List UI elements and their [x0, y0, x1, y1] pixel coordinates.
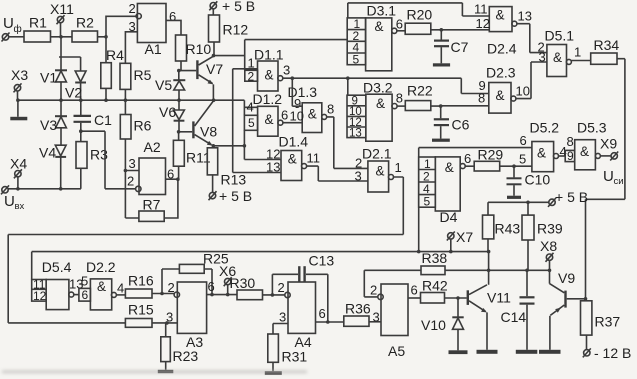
- svg-text:2: 2: [129, 1, 136, 16]
- svg-text:6: 6: [520, 133, 527, 148]
- pin cell column of D4: [419, 157, 436, 209]
- resistor R6: [120, 115, 151, 140]
- wire R25 to A3 out: [204, 269, 212, 295]
- svg-text:2: 2: [278, 280, 285, 295]
- svg-text:2: 2: [248, 69, 255, 83]
- svg-text:R38: R38: [422, 250, 448, 266]
- svg-text:R1: R1: [29, 15, 47, 31]
- terminal +5V top: [209, 0, 255, 14]
- svg-text:X4: X4: [10, 156, 27, 172]
- gate D1.2: [247, 91, 289, 136]
- wire R25 branch riser: [162, 269, 179, 294]
- svg-text:R20: R20: [407, 7, 433, 23]
- capacitor C6: [434, 106, 470, 139]
- terminal X11: [50, 1, 74, 24]
- svg-text:V2: V2: [65, 85, 82, 101]
- svg-text:2: 2: [370, 283, 377, 298]
- ground at V9: [539, 350, 561, 354]
- resistor R23: [161, 323, 199, 364]
- svg-text:8: 8: [327, 102, 334, 117]
- svg-text:2: 2: [127, 174, 134, 189]
- wire D3.1 pin1 tie to D2.4 pin11: [348, 3, 490, 18]
- svg-text:R2: R2: [76, 15, 94, 31]
- pin cell 2 of D1.1: [245, 69, 258, 83]
- resistor R39: [522, 215, 563, 270]
- svg-text:U: U: [603, 168, 614, 185]
- svg-text:&: &: [375, 19, 384, 34]
- svg-text:D1.2: D1.2: [253, 91, 283, 107]
- wire A5 out to R42: [408, 297, 421, 299]
- gate D3.2: [363, 80, 403, 142]
- svg-text:D1.1: D1.1: [254, 47, 284, 63]
- wire Uf to R1: [9, 36, 24, 38]
- svg-text:&: &: [265, 68, 274, 83]
- svg-text:8: 8: [567, 134, 574, 149]
- wire A1 out to R10: [166, 20, 181, 35]
- svg-text:6: 6: [208, 279, 215, 294]
- resistor R31: [268, 334, 308, 365]
- gate D3.1: [366, 3, 403, 71]
- resistor R16: [116, 273, 153, 299]
- wire C13 left branch: [272, 274, 298, 295]
- svg-text:R12: R12: [223, 22, 249, 38]
- svg-text:C10: C10: [525, 172, 551, 188]
- svg-text:R13: R13: [221, 172, 247, 188]
- svg-text:V1: V1: [40, 70, 57, 86]
- svg-text:C7: C7: [451, 39, 469, 55]
- wire V7 collector node to D3.1 riser: [214, 40, 245, 71]
- svg-text:R37: R37: [595, 314, 621, 330]
- wire C1/R3 tap to A2 pin2: [81, 131, 136, 189]
- diode V2: [65, 57, 86, 101]
- resistor R25: [179, 251, 228, 274]
- scanner smudge bottom: [2, 371, 307, 373]
- svg-text:A1: A1: [145, 41, 162, 57]
- svg-text:12: 12: [33, 289, 47, 303]
- svg-text:&: &: [496, 8, 505, 23]
- svg-text:5: 5: [81, 274, 88, 289]
- gate D2.1: [355, 146, 402, 193]
- wire common rail: [18, 99, 214, 101]
- ground at V10: [449, 350, 468, 354]
- gate D2.4: [474, 2, 532, 57]
- wire R20 to D2.4 pin12: [431, 29, 490, 31]
- gate D1.3: [288, 84, 335, 133]
- resistor R1: [24, 15, 51, 43]
- resistor R13: [207, 146, 246, 193]
- svg-text:V3: V3: [40, 117, 57, 133]
- op-amp A4: [278, 280, 326, 350]
- svg-text:R34: R34: [594, 37, 620, 53]
- wire R38 left branch to A5 pin2: [364, 270, 421, 297]
- svg-text:R15: R15: [128, 302, 154, 318]
- wire R42 to V11 base: [445, 297, 467, 299]
- svg-text:10: 10: [290, 109, 304, 124]
- svg-text:X7: X7: [456, 229, 473, 245]
- wire R10 to V7 base: [181, 61, 196, 71]
- wire +5V rail to R43 R39: [488, 202, 549, 215]
- wire R34 down right edge to V9 base: [586, 59, 625, 299]
- resistor R3: [76, 131, 108, 189]
- svg-text:R16: R16: [128, 273, 154, 289]
- wire D1.2 out to D1.3 pin10: [283, 122, 302, 124]
- svg-text:&: &: [288, 152, 297, 167]
- resistor R12: [209, 9, 249, 56]
- wire R6 down through A2 pin3 to R7: [125, 139, 139, 218]
- wire D1.1 pin1 tie: [233, 69, 258, 173]
- capacitor C1: [74, 100, 113, 131]
- pin cell 6 of D2.2: [79, 274, 91, 303]
- transistor V7: [196, 56, 223, 100]
- terminal Uf input: [2, 15, 22, 42]
- svg-text:D3.2: D3.2: [363, 80, 393, 96]
- pin cell 5 of D1.2: [244, 115, 257, 130]
- svg-text:R6: R6: [134, 118, 152, 134]
- svg-text:R10: R10: [186, 41, 212, 57]
- svg-text:V4: V4: [39, 145, 56, 161]
- svg-text:C14: C14: [501, 309, 527, 325]
- resistor R29: [465, 147, 503, 172]
- svg-text:D5.2: D5.2: [530, 120, 560, 136]
- svg-text:V7: V7: [206, 61, 223, 77]
- resistor R7: [139, 197, 164, 222]
- svg-text:13: 13: [349, 128, 362, 140]
- svg-text:&: &: [553, 50, 562, 65]
- svg-text:вх: вх: [15, 201, 25, 212]
- wire collector rail y271: [489, 269, 550, 271]
- op-amp A3: [166, 279, 215, 350]
- svg-text:6: 6: [411, 283, 418, 298]
- svg-text:- 12 В: - 12 В: [594, 345, 631, 361]
- svg-text:9: 9: [567, 149, 574, 163]
- svg-text:D4: D4: [440, 209, 458, 225]
- gate D1.1: [248, 47, 291, 92]
- svg-text:6: 6: [319, 306, 326, 321]
- svg-text:+ 5 В: + 5 В: [555, 189, 588, 205]
- svg-text:R4: R4: [106, 47, 124, 63]
- wire A4 pin3 to R31: [273, 324, 288, 335]
- svg-text:C1: C1: [94, 112, 112, 128]
- pin cell 8/9 of D5.3: [565, 134, 575, 163]
- pin cell column of D3.1: [347, 17, 365, 66]
- resistor R37: [581, 299, 621, 350]
- gate D5.3: [575, 120, 607, 170]
- resistor R22: [397, 83, 433, 111]
- wire R2 to node and riser to A1 pin2: [98, 16, 137, 37]
- svg-text:3: 3: [279, 310, 286, 325]
- op-amp A5: [370, 283, 418, 360]
- svg-text:6: 6: [82, 288, 89, 302]
- wire long run D1.1out to D2.3 pin9: [348, 78, 489, 93]
- wire R38 to V11 collector node: [445, 252, 489, 285]
- svg-text:&: &: [308, 107, 317, 122]
- diode V1: [40, 37, 81, 100]
- diode V6: [159, 100, 184, 132]
- svg-text:R39: R39: [537, 221, 563, 237]
- ground at C6: [432, 139, 450, 142]
- terminal X7: [447, 229, 474, 252]
- gate D5.4: [42, 259, 84, 310]
- svg-text:V11: V11: [487, 290, 511, 306]
- svg-text:V9: V9: [558, 270, 575, 286]
- svg-text:ф: ф: [14, 23, 22, 35]
- svg-text:&: &: [496, 88, 505, 103]
- wire V8 emitter node: [213, 100, 281, 159]
- svg-text:&: &: [376, 164, 385, 179]
- wire Uvx to R3 bottom: [8, 188, 81, 190]
- wire D2.1 out outer feedback loop: [8, 177, 403, 323]
- svg-text:D5.4: D5.4: [42, 259, 72, 275]
- svg-text:R42: R42: [422, 278, 448, 294]
- wire A2 out node: [164, 179, 178, 218]
- svg-text:6: 6: [464, 151, 471, 166]
- resistor R20: [397, 7, 432, 35]
- capacitor C7: [434, 30, 469, 64]
- wire R1 to R2: [51, 36, 73, 38]
- wire inner feedback loop: [32, 252, 489, 280]
- svg-text:X3: X3: [11, 67, 28, 83]
- resistor R42: [421, 278, 448, 304]
- svg-text:X9: X9: [600, 136, 617, 152]
- wire X3 stub: [17, 91, 19, 100]
- diode V5: [155, 71, 185, 101]
- ground at C7: [433, 63, 450, 66]
- svg-text:&: &: [97, 279, 106, 294]
- resistor R36: [344, 301, 371, 327]
- capacitor C13: [299, 253, 334, 283]
- svg-text:R30: R30: [230, 275, 256, 291]
- wire D2.4 out to D5.1 pin2: [517, 24, 547, 53]
- svg-text:6: 6: [396, 16, 403, 31]
- ground at R31: [265, 362, 282, 375]
- resistor R4: [101, 37, 124, 100]
- svg-text:A5: A5: [388, 343, 405, 359]
- wire D1.4 out to D2.1 pin3: [307, 166, 368, 181]
- diode V4: [39, 128, 66, 189]
- terminal X8: [540, 238, 557, 270]
- svg-text:U: U: [3, 15, 14, 32]
- wire A3 out to R30: [207, 294, 237, 296]
- terminal X6: [219, 263, 236, 295]
- terminal X9 output: [600, 136, 624, 188]
- svg-text:1: 1: [574, 45, 581, 60]
- svg-text:V6: V6: [159, 104, 176, 120]
- svg-text:5: 5: [519, 152, 526, 167]
- svg-text:V5: V5: [155, 77, 172, 93]
- svg-text:5: 5: [248, 116, 255, 130]
- gate D4: [435, 151, 471, 225]
- resistor R15: [125, 302, 153, 328]
- svg-text:R23: R23: [173, 348, 199, 364]
- svg-text:V10: V10: [421, 317, 446, 333]
- svg-text:R31: R31: [282, 349, 308, 365]
- resistor R11: [173, 132, 210, 179]
- svg-text:3: 3: [355, 169, 362, 184]
- op-amp A2: [127, 139, 174, 195]
- svg-text:11: 11: [474, 2, 488, 17]
- svg-text:V8: V8: [200, 124, 217, 140]
- resistor R10: [176, 35, 212, 61]
- resistor R43: [483, 215, 521, 252]
- resistor R38: [421, 250, 447, 275]
- wire to D3.1 inputs: [245, 39, 348, 41]
- svg-text:+ 5 В: + 5 В: [219, 188, 252, 204]
- svg-text:C6: C6: [452, 117, 470, 133]
- svg-text:D2.3: D2.3: [486, 65, 516, 81]
- pin cell 11/12 of D5.4: [32, 277, 47, 303]
- svg-text:си: си: [614, 176, 624, 187]
- pin cell column of D3.2: [347, 95, 366, 139]
- terminal Uvx input: [1, 185, 25, 212]
- wire R29 to D5.2 pin5: [500, 165, 532, 167]
- wire C13 right branch to A4 out: [306, 274, 328, 322]
- gate D5.2: [519, 120, 567, 172]
- svg-text:A2: A2: [144, 139, 161, 155]
- gate D2.3: [478, 65, 530, 114]
- svg-text:10: 10: [516, 84, 530, 99]
- svg-text:2: 2: [168, 280, 175, 295]
- svg-text:4: 4: [247, 99, 254, 114]
- svg-text:&: &: [445, 160, 454, 175]
- wire D1.1 out to D1.3 pin9 and long run: [283, 78, 348, 106]
- svg-text:C13: C13: [309, 253, 335, 269]
- wire A1 pin3 from R5: [125, 32, 137, 64]
- ground at V11: [477, 350, 498, 354]
- terminal -12V: [583, 345, 632, 361]
- svg-text:12: 12: [476, 16, 490, 31]
- ground at C14: [516, 350, 538, 354]
- transistor V11: [467, 285, 511, 350]
- wire D2.3 out to D5.1 pin3: [516, 62, 547, 99]
- wire D1.4 pin13: [233, 172, 281, 174]
- terminal X3: [11, 67, 28, 92]
- svg-text:6: 6: [169, 9, 176, 24]
- transistor V9: [550, 270, 586, 350]
- resistor R5: [120, 63, 152, 114]
- wire R15 to A3 pin3: [152, 322, 177, 324]
- wire riser to D3.2 cells: [347, 78, 349, 95]
- wire D5.4 out to D2.2 cell: [74, 294, 79, 296]
- svg-text:11: 11: [307, 151, 321, 166]
- svg-text:R43: R43: [495, 221, 521, 237]
- terminal X4: [10, 156, 27, 189]
- svg-text:13: 13: [518, 9, 532, 24]
- svg-text:R36: R36: [345, 301, 371, 317]
- capacitor C14: [501, 270, 535, 350]
- svg-text:&: &: [537, 146, 546, 161]
- ground at C10: [507, 196, 521, 199]
- ground at R23: [158, 362, 174, 374]
- svg-text:&: &: [580, 144, 589, 159]
- wire R22 to D2.3 pin8: [431, 105, 489, 107]
- svg-text:8: 8: [478, 91, 485, 106]
- capacitor C10: [507, 166, 551, 196]
- terminal +5V mid: [209, 188, 253, 204]
- svg-text:D1.4: D1.4: [279, 134, 309, 150]
- svg-text:&: &: [376, 96, 385, 111]
- resistor R2: [72, 15, 98, 43]
- transistor V8: [179, 101, 218, 146]
- svg-text:D2.1: D2.1: [362, 146, 392, 162]
- svg-text:R5: R5: [134, 67, 152, 83]
- svg-text:3: 3: [129, 156, 136, 171]
- resistor R34: [571, 37, 619, 64]
- svg-text:5: 5: [424, 195, 431, 209]
- diode V10 zener: [421, 298, 464, 350]
- wire R36 to A5 pin3: [369, 321, 381, 323]
- wire R16 to A3 pin2: [152, 293, 174, 295]
- ground at X3: [10, 100, 27, 120]
- svg-text:D2.4: D2.4: [487, 41, 517, 57]
- gate D5.1: [538, 28, 582, 77]
- resistor R30: [230, 275, 263, 300]
- wire D5.2 pin6 run and D4 input tie: [419, 148, 532, 252]
- diode V3: [40, 100, 67, 133]
- svg-text:1: 1: [395, 160, 402, 175]
- svg-text:X8: X8: [540, 238, 557, 254]
- svg-text:X11: X11: [50, 1, 74, 17]
- svg-text:D5.3: D5.3: [577, 120, 607, 136]
- svg-text:&: &: [265, 112, 274, 127]
- wire D5.2 out to D5.3 cell: [559, 155, 566, 157]
- op-amp A1: [129, 1, 177, 57]
- gate D2.2: [86, 259, 124, 310]
- svg-text:D2.2: D2.2: [86, 259, 116, 275]
- svg-text:+ 5 В: + 5 В: [222, 0, 255, 14]
- wire R30 to A4 pin2: [263, 294, 285, 296]
- svg-text:U: U: [4, 193, 15, 210]
- wire A4 out to R36: [316, 321, 344, 323]
- svg-text:3: 3: [373, 310, 380, 325]
- terminal +5V right: [548, 189, 588, 207]
- svg-text:5: 5: [353, 52, 360, 66]
- svg-text:R29: R29: [478, 147, 504, 163]
- svg-text:3: 3: [283, 63, 290, 78]
- svg-text:R7: R7: [143, 197, 161, 213]
- wire X11 stub: [60, 23, 62, 37]
- svg-text:3: 3: [539, 50, 546, 65]
- svg-text:R22: R22: [407, 83, 433, 99]
- gate D1.4: [266, 134, 320, 181]
- wire D1.3 out to D2.1 pin2: [327, 117, 368, 168]
- svg-text:D5.1: D5.1: [545, 28, 575, 44]
- svg-text:8: 8: [396, 91, 403, 106]
- svg-text:4: 4: [117, 281, 124, 296]
- svg-text:6: 6: [281, 108, 288, 123]
- svg-text:D3.1: D3.1: [367, 3, 397, 19]
